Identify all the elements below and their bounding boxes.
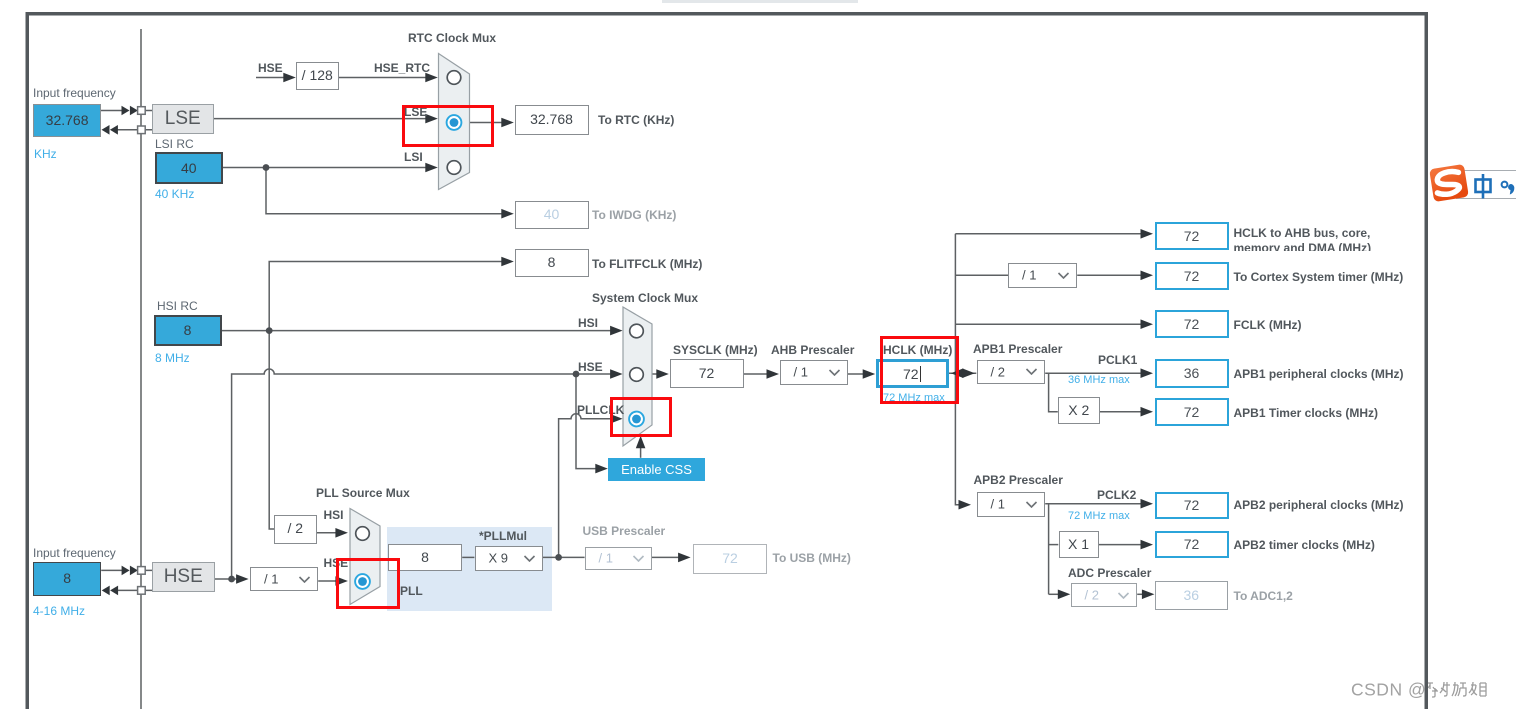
box HCLK editing xyxy=(876,359,949,389)
frame left edge xyxy=(26,12,30,709)
wire APB2 prescaler out xyxy=(1045,503,1143,505)
red annotation rect HCLK xyxy=(880,336,959,404)
arrowhead LSE into RTC mux xyxy=(425,114,438,124)
wire bus to FCLK box xyxy=(955,323,1143,325)
mux System Clock Mux xyxy=(623,307,652,446)
arrowhead LSE input out 1 xyxy=(122,106,130,116)
dropdown AHB xyxy=(780,360,848,385)
label To USB xyxy=(773,551,851,565)
arrowhead into HSE div1 dropdown xyxy=(236,574,249,584)
wire to IWDG xyxy=(266,168,504,214)
dropdown ADC div2 disabled xyxy=(1071,583,1138,607)
box SYSCLK value xyxy=(670,359,744,388)
arrowheads xyxy=(102,73,1155,599)
arrowhead LSE input return 1 xyxy=(102,125,110,135)
button Enable CSS xyxy=(608,458,705,481)
arrowhead into AHB prescaler xyxy=(767,369,780,379)
arrowhead HSE input return 1 xyxy=(102,586,110,596)
label ADC Prescaler xyxy=(1068,566,1151,580)
junction dot HSE out xyxy=(228,576,235,583)
arrowhead LSE input out 2 xyxy=(130,106,138,116)
wire div128 to RTC mux xyxy=(338,77,428,79)
arrowhead into APB2 peripheral box xyxy=(1141,499,1154,509)
box to IWDG value xyxy=(515,201,589,229)
wire Enable CSS up arrow xyxy=(640,445,642,458)
degree punct xyxy=(1502,182,1508,188)
wire LSE input out xyxy=(101,110,124,112)
dropdown cortex div1 xyxy=(1008,263,1077,288)
arrowhead LSE input return 2 xyxy=(110,125,118,135)
arrowhead into Enable CSS xyxy=(595,464,608,474)
label To ADC xyxy=(1234,589,1293,603)
wire LSE input return xyxy=(117,129,138,131)
radio PLLCLK selected xyxy=(629,412,644,427)
wire RTC mux out xyxy=(470,122,504,124)
label AHB Prescaler xyxy=(771,343,854,357)
label LSI RC xyxy=(155,137,194,151)
box div2 xyxy=(274,515,317,544)
watermark CSDN xyxy=(1351,679,1502,701)
arrowhead HSE into div128 xyxy=(283,73,296,83)
wire div2 to PLL mux xyxy=(317,532,339,534)
arrowhead HSE input return 2 xyxy=(110,586,118,596)
top tab remnant xyxy=(662,0,858,3)
output box APB2 timer xyxy=(1155,531,1229,559)
connector square HSE in xyxy=(138,567,146,575)
dropdown APB1 xyxy=(977,360,1046,385)
divider line xyxy=(140,29,142,709)
label To IWDG xyxy=(592,208,676,222)
dropdown APB2 xyxy=(977,492,1046,517)
label To FLITFCLK xyxy=(592,257,702,271)
wire to FLITFCLK xyxy=(269,262,504,331)
arrowhead into ADC output box xyxy=(1142,590,1155,600)
box X2 xyxy=(1058,397,1100,425)
arrowhead into APB1 prescaler xyxy=(962,368,975,378)
wire USB prescaler out xyxy=(652,556,681,558)
arrowhead into USB output box xyxy=(678,553,691,563)
arrowhead PLLCLK into system mux xyxy=(610,414,623,424)
junction dot LSI/IWDG xyxy=(263,164,270,171)
label 72 MHz max APB2 xyxy=(1068,510,1130,522)
radio PLL HSI unselected xyxy=(356,527,370,541)
label RTC Clock Mux xyxy=(408,31,496,45)
wire HSE to Enable CSS xyxy=(576,374,598,469)
label APB1 peripheral xyxy=(1234,367,1404,381)
blue box HSI 8 xyxy=(154,315,222,346)
label input frequency top xyxy=(33,86,116,100)
arrowhead into cortex timer output box xyxy=(1141,271,1154,281)
radio HSE_RTC unselected xyxy=(447,71,461,85)
label HCLK to AHB two lines clipped xyxy=(1234,226,1372,252)
wire bus to cortex prescaler xyxy=(955,274,1008,276)
label 36 MHz max xyxy=(1068,374,1130,386)
wire cortex prescaler out xyxy=(1077,274,1143,276)
wire APB2 branch down xyxy=(1048,504,1050,595)
label 8 MHz xyxy=(155,351,190,365)
junction dot HSI xyxy=(266,327,273,334)
label HSI at sys mux xyxy=(578,316,598,330)
junction dot PLL out xyxy=(555,554,562,561)
blue box input frequency LSE xyxy=(33,104,101,137)
label LSI at mux xyxy=(404,150,423,164)
label PLL Source Mux xyxy=(316,486,410,500)
arrowhead HSE input out 1 xyxy=(122,566,130,576)
label APB1 Prescaler xyxy=(973,342,1062,356)
output box APB2 peripheral xyxy=(1155,492,1229,519)
radio HSI sys unselected xyxy=(630,324,644,338)
wire APB1 prescaler out xyxy=(1045,372,1143,374)
box to RTC value xyxy=(515,105,589,135)
radio LSE selected xyxy=(447,115,462,130)
connector square LSE out xyxy=(138,126,146,134)
frame right edge xyxy=(1425,12,1429,709)
wire square stubs top xyxy=(145,111,152,130)
label HSE at sys mux xyxy=(578,360,603,374)
arrowhead into FLITFCLK box xyxy=(501,257,514,267)
blue box LSI 40 xyxy=(155,152,223,184)
label APB2 Prescaler xyxy=(974,473,1063,487)
radio LSI unselected xyxy=(447,161,461,175)
label HSI at PLL mux xyxy=(324,508,344,522)
box to USB value xyxy=(693,544,767,574)
label PLLCLK at sys mux xyxy=(577,403,624,417)
label HSI RC xyxy=(157,299,198,313)
wire square stubs bottom xyxy=(145,570,152,590)
arrowhead into HCLK-AHB output box xyxy=(1141,229,1154,239)
label HSE top xyxy=(258,61,283,75)
wire HSE to div128 xyxy=(256,77,286,79)
wire branch to ADC prescaler xyxy=(1049,593,1061,595)
arrowhead into IWDG box xyxy=(501,209,514,219)
arrowhead into HCLK box xyxy=(863,369,876,379)
comma punct xyxy=(1508,184,1514,194)
dropdown USB disabled xyxy=(585,547,652,571)
arrowhead LSI into RTC mux xyxy=(425,163,438,173)
wire HSI RC to system mux xyxy=(222,330,613,332)
label LSE at mux xyxy=(404,105,427,119)
label 40 KHz xyxy=(155,187,194,201)
wire HSE riser to system mux with hop xyxy=(232,369,613,579)
arrowhead HSE input out 2 xyxy=(130,566,138,576)
box to ADC value xyxy=(1155,581,1229,610)
label USB Prescaler xyxy=(583,524,666,538)
wire HSE input return xyxy=(117,589,138,591)
wire X2 out xyxy=(1100,411,1143,413)
wire vertical bus xyxy=(955,234,961,505)
wire LSE to RTC mux xyxy=(214,118,429,120)
red annotation rect PLL HSE radio xyxy=(336,558,401,609)
connector square LSE in xyxy=(138,107,146,115)
box PLL input 8 xyxy=(388,544,462,572)
label APB1 timer xyxy=(1234,406,1379,420)
red annotation rect LSE radio xyxy=(402,105,494,147)
sogou input bar strip xyxy=(1456,170,1516,198)
wire LSI 40 to RTC mux xyxy=(223,167,429,169)
PLL highlight block xyxy=(387,527,552,611)
wire branch to X1 xyxy=(1049,544,1059,546)
label SYSCLK xyxy=(673,343,758,357)
wire system mux out xyxy=(652,373,659,375)
box X1 xyxy=(1059,531,1099,558)
wire AHB prescaler to HCLK xyxy=(847,373,866,375)
output box HCLK AHB xyxy=(1155,222,1229,250)
wire HSI riser to div2 xyxy=(269,331,274,529)
label FCLK xyxy=(1234,318,1302,332)
arrowhead into APB1 peripheral box xyxy=(1141,368,1154,378)
label input frequency bottom xyxy=(33,546,116,560)
frame top edge xyxy=(26,12,1429,16)
label APB2 timer xyxy=(1234,538,1375,552)
junction dot HSE/CSS xyxy=(573,371,580,378)
label PCLK2 xyxy=(1097,488,1136,502)
wire div1 to PLL mux xyxy=(318,580,338,582)
label KHz xyxy=(34,147,57,161)
arrowhead HSE_RTC into RTC mux xyxy=(425,73,438,83)
arrowhead HSI into system mux xyxy=(610,326,623,336)
arrowhead HSI into PLL mux xyxy=(335,528,348,538)
arrowhead up into system mux from Enable CSS xyxy=(636,436,646,449)
label PLL xyxy=(400,584,423,598)
label cortex xyxy=(1234,270,1404,284)
arrowhead into APB1 timer box xyxy=(1141,407,1154,417)
blue box input frequency HSE xyxy=(33,562,101,596)
wire bus to HCLK AHB box xyxy=(955,233,1143,235)
red annotation rect PLLCLK radio xyxy=(610,397,672,437)
box div128 xyxy=(296,62,339,90)
wire SYSCLK to AHB prescaler xyxy=(743,373,770,375)
label To RTC xyxy=(598,113,674,127)
label 72 MHz max HCLK xyxy=(883,392,945,404)
radio HSE sys unselected xyxy=(630,368,644,382)
label HSE at PLL mux xyxy=(324,556,349,570)
label PCLK1 xyxy=(1098,353,1137,367)
arrowhead HSE into system mux xyxy=(610,369,623,379)
arrowhead into ADC prescaler xyxy=(1058,590,1071,600)
dropdown X9 xyxy=(475,546,543,571)
sogou S logo xyxy=(1425,158,1516,210)
radio PLL HSE selected xyxy=(355,574,370,589)
arrowhead RTC mux out into To-RTC box xyxy=(501,118,514,128)
mux RTC Clock Mux xyxy=(439,54,470,190)
arrowhead HSE into PLL mux xyxy=(335,576,348,586)
wire HSE box out xyxy=(215,578,240,580)
arrowhead into FCLK output box xyxy=(1141,319,1154,329)
wire X9 to USB prescaler xyxy=(543,556,585,558)
box LSE xyxy=(152,104,214,134)
mux PLL Source Mux xyxy=(350,509,380,605)
wire X1 out xyxy=(1099,544,1143,546)
wire PLL 8 to X9 xyxy=(462,556,474,558)
arrowhead system mux out into SYSCLK box xyxy=(656,369,669,379)
wire PLLCLK riser with hop xyxy=(559,414,613,558)
box HSE source xyxy=(152,562,215,593)
label HCLK xyxy=(883,343,952,357)
wire ADC prescaler out xyxy=(1137,593,1145,595)
connector square HSE out xyxy=(138,587,146,595)
arrowhead back into HCLK box xyxy=(951,368,964,378)
wire HCLK to bus xyxy=(949,372,977,374)
output box APB1 peripheral xyxy=(1155,359,1229,389)
output box cortex xyxy=(1155,262,1229,290)
arrowhead into APB2 timer box xyxy=(1141,540,1154,550)
output box FCLK xyxy=(1155,310,1229,338)
wire HSE input out xyxy=(101,569,124,571)
label System Clock Mux xyxy=(592,291,698,305)
junction dots xyxy=(228,164,579,582)
dropdown div1 HSE xyxy=(250,567,318,591)
output box APB1 timer xyxy=(1155,398,1229,427)
label 4-16 MHz xyxy=(33,604,85,618)
label APB2 peripheral xyxy=(1234,498,1404,512)
zhong character xyxy=(1476,174,1491,199)
arrowhead into APB2 prescaler xyxy=(959,500,972,510)
label PLLMul xyxy=(479,529,527,543)
box to FLITFCLK value xyxy=(515,249,589,277)
wire APB1 X2 branch xyxy=(1049,373,1058,412)
connector squares xyxy=(138,107,146,594)
label HSE_RTC xyxy=(374,61,430,75)
